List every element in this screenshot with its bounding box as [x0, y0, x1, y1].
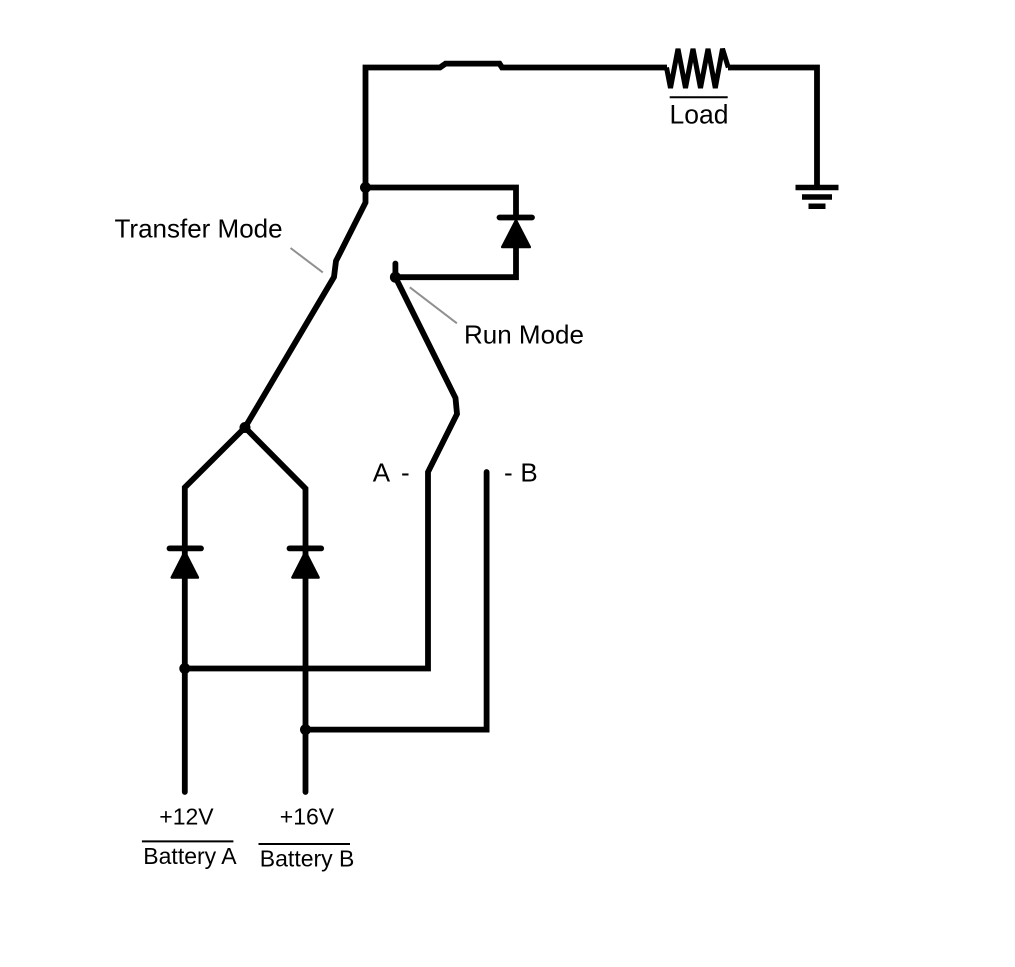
- ground: [796, 188, 839, 207]
- svg-text:Run Mode: Run Mode: [464, 320, 584, 350]
- resistor Load (zigzag): [667, 49, 729, 88]
- battery A overline: [142, 840, 234, 842]
- wire: node B fork to battery A branch: [185, 428, 245, 793]
- leader line for Run Mode label: [410, 287, 457, 323]
- switch arm: run mode blade + contact A vertical + wire to battery A node: [185, 277, 457, 668]
- svg-text:B: B: [520, 457, 537, 487]
- svg-text:Load: Load: [670, 100, 729, 130]
- diode D1 (battery A): [170, 548, 202, 577]
- svg-text:-: -: [504, 457, 513, 487]
- switch arm: transfer mode blade (node A to node B): [245, 188, 366, 428]
- wire: node A to top diode branch: [366, 188, 517, 218]
- battery A junction dot: [179, 663, 190, 674]
- svg-text:A: A: [373, 457, 391, 487]
- leader line for Transfer Mode label: [291, 248, 323, 272]
- svg-text:+12V: +12V: [159, 803, 214, 829]
- diode D3 (run-mode bypass diode): [395, 218, 532, 278]
- svg-text:-: -: [401, 457, 410, 487]
- svg-text:Transfer Mode: Transfer Mode: [115, 214, 283, 244]
- node A junction dot: [360, 182, 371, 193]
- wire: node B fork to battery B branch: [245, 428, 306, 793]
- label: Load overline: [670, 96, 728, 98]
- wire: top rail left segment with closed switch bump: [366, 64, 668, 188]
- battery B overline: [259, 843, 351, 845]
- wire: top rail right segment to ground drop: [728, 68, 817, 186]
- svg-text:+16V: +16V: [280, 803, 335, 829]
- battery B junction dot: [300, 724, 311, 735]
- node B junction dot: [240, 422, 251, 433]
- svg-text:Battery A: Battery A: [143, 843, 237, 869]
- diode D2 (battery B): [290, 548, 322, 577]
- run mode node dot: [390, 272, 401, 283]
- wire: battery B node to contact B vertical: [306, 472, 487, 730]
- svg-text:Battery B: Battery B: [260, 846, 355, 872]
- run-mode contact stub: [392, 264, 398, 278]
